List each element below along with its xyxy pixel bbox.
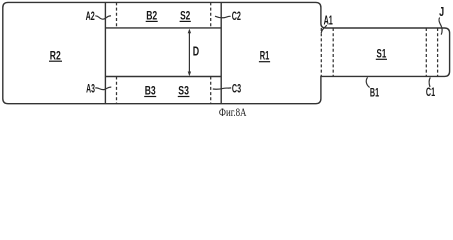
underline R2 [49,60,62,62]
svg-text:B1: B1 [370,85,379,99]
leader A2 [95,16,111,19]
svg-text:C3: C3 [232,82,241,96]
svg-text:S3: S3 [178,83,189,97]
svg-text:B3: B3 [145,83,156,97]
svg-text:A1: A1 [324,12,333,27]
svg-text:C1: C1 [426,85,435,99]
fold line C3 (dashed) [210,77,212,104]
svg-text:Фиг.8А: Фиг.8А [219,105,247,119]
dimension arrow D [188,29,191,77]
svg-text:S1: S1 [377,46,387,60]
bottom strip B3/S3 top edge [105,76,221,78]
svg-text:R2: R2 [50,48,61,62]
fold line A3 (dashed) [116,77,118,104]
leader C1 [429,77,430,87]
leader B1 [366,77,369,87]
fold line C1 right (dashed) [437,28,439,76]
svg-text:A2: A2 [86,9,95,23]
top strip B2/S2 bottom edge [105,27,221,29]
leader C3 [213,88,231,89]
fold line A1 left (dashed) [320,28,322,76]
underline R1 [259,61,270,63]
leader A3 [95,87,111,90]
fold line C2 (dashed) [210,2,212,28]
outer cut outline of blank (R2 + strips + R1 + S1) [3,2,450,103]
leader A1 [321,25,326,33]
leader C2 [215,16,231,18]
svg-text:A3: A3 [86,81,95,95]
underline S3 [178,96,190,98]
panel R2 right edge [104,2,106,103]
svg-text:J: J [439,5,444,19]
leader J [439,18,442,35]
underline S1 [376,58,387,60]
panel R1 left edge [220,2,222,103]
fold line A1 right (dashed) [332,28,334,76]
underline S2 [180,20,191,22]
underline B2 [146,20,158,22]
svg-text:R1: R1 [260,49,270,63]
svg-text:B2: B2 [146,8,157,22]
svg-text:C2: C2 [232,9,241,23]
svg-text:D: D [193,44,199,59]
underline B3 [144,96,156,98]
fold line A2 (dashed) [116,2,118,28]
svg-text:S2: S2 [180,8,191,22]
fold line C1 left (dashed) [425,28,427,76]
